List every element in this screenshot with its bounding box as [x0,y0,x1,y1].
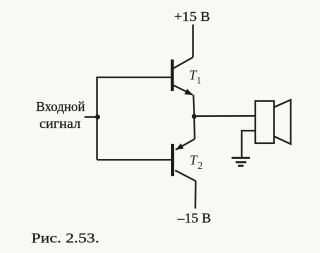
wire: input stub [85,116,96,118]
wire: +15V rail down to T1 collector [192,25,194,58]
node: input junction [95,115,100,120]
svg-text:–15 В: –15 В [177,212,211,227]
svg-text:сигнал: сигнал [39,116,80,131]
wire: input bottom branch / T2 base [97,159,171,161]
svg-text:T1: T1 [189,68,202,87]
node: output junction [192,114,197,119]
speaker LS1 [255,100,290,144]
transistor T2 [171,119,196,181]
wire: output node to speaker [196,115,255,117]
svg-text:T2: T2 [190,153,203,173]
wire: input top branch / T1 base [96,76,171,78]
transistor T1 [171,57,194,114]
svg-text:+15 В: +15 В [174,10,210,25]
svg-text:Входной: Входной [36,99,85,114]
wire: input riser [96,77,98,160]
ground [232,158,250,166]
wire: speaker return to ground [242,131,256,158]
svg-text:Рис. 2.53.: Рис. 2.53. [31,231,99,246]
wire: T2 collector to -15V rail [194,181,196,209]
